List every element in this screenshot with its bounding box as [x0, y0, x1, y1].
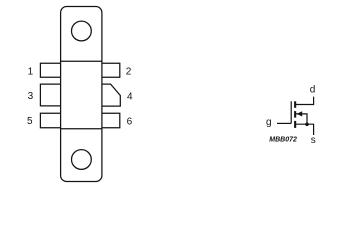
drain lead wire: [296, 97, 314, 105]
junction dot (bulk-source tie): [305, 123, 309, 127]
top mounting hole: [72, 21, 92, 41]
svg-text:3: 3: [28, 91, 34, 102]
gate electrode line: [290, 101, 292, 123]
pin 4 (chamfered corner pin): [102, 84, 120, 106]
svg-text:g: g: [266, 117, 272, 128]
channel bar (source segment): [294, 121, 296, 128]
pin 1: [40, 63, 60, 77]
svg-text:1: 1: [28, 67, 34, 78]
channel bar (drain segment): [294, 101, 296, 108]
package outline (tab-body-tab silhouette with mounting flanges): [61, 7, 102, 182]
svg-text:d: d: [310, 85, 316, 96]
svg-text:4: 4: [127, 91, 133, 102]
bulk arrowhead: [297, 111, 303, 116]
svg-text:MBB072: MBB072: [269, 135, 297, 144]
pin 6: [102, 113, 120, 128]
svg-text:2: 2: [126, 67, 132, 78]
seam line between top tab and body: [61, 60, 102, 62]
seam line between body and bottom tab: [61, 128, 102, 130]
svg-text:6: 6: [127, 116, 133, 127]
svg-text:s: s: [311, 135, 316, 146]
pin 5: [40, 113, 60, 128]
pin 3: [40, 84, 60, 106]
pin 2: [102, 63, 120, 77]
bulk lead wire: [296, 114, 307, 124]
source lead wire: [296, 124, 314, 135]
bottom mounting hole: [72, 150, 92, 170]
gate lead wire: [277, 122, 291, 124]
channel bar (bulk segment): [294, 111, 296, 118]
svg-text:5: 5: [27, 116, 33, 127]
